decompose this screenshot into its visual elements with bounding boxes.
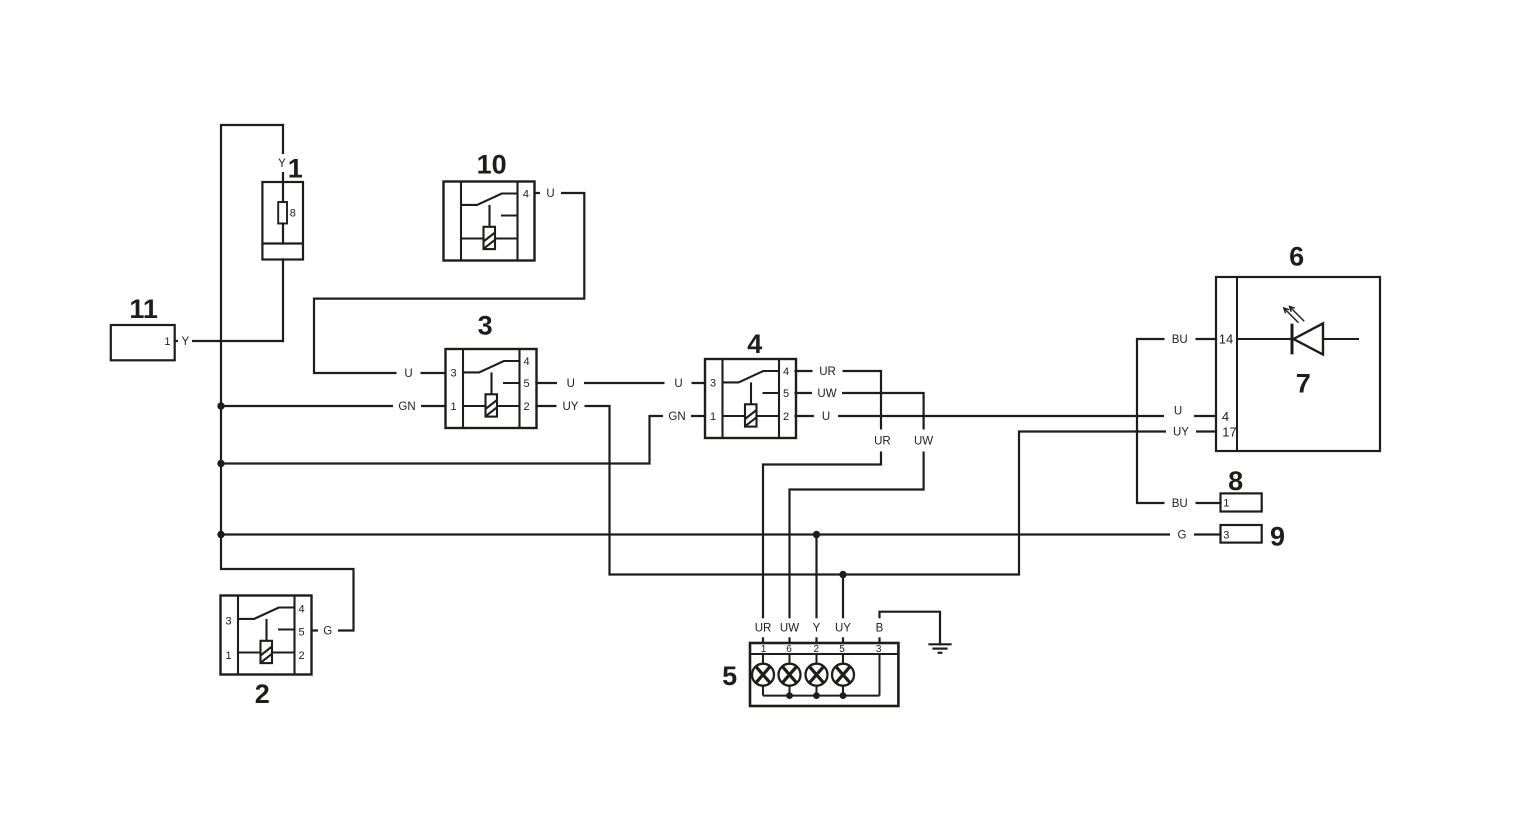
svg-text:Y: Y [278, 158, 286, 170]
svg-text:14: 14 [1219, 332, 1233, 347]
svg-text:GN: GN [668, 411, 685, 423]
svg-text:UW: UW [914, 435, 933, 447]
svg-text:1: 1 [710, 411, 716, 423]
svg-text:2: 2 [523, 401, 529, 413]
svg-text:BU: BU [1172, 498, 1188, 510]
svg-text:UW: UW [817, 388, 836, 400]
svg-text:1: 1 [1223, 498, 1229, 510]
svg-text:3: 3 [450, 367, 456, 379]
svg-text:5: 5 [839, 644, 845, 655]
svg-text:4: 4 [298, 603, 304, 615]
svg-text:UY: UY [835, 622, 851, 634]
svg-text:2: 2 [814, 644, 820, 655]
svg-text:BU: BU [1172, 334, 1188, 346]
svg-text:1: 1 [288, 154, 303, 184]
svg-text:2: 2 [298, 650, 304, 662]
svg-text:11: 11 [129, 294, 158, 324]
svg-text:U: U [674, 378, 682, 390]
svg-text:4: 4 [523, 356, 529, 368]
svg-text:Y: Y [813, 622, 821, 634]
svg-text:9: 9 [1270, 522, 1285, 552]
svg-text:UR: UR [755, 622, 772, 634]
svg-text:1: 1 [450, 401, 456, 413]
svg-text:UY: UY [1173, 427, 1189, 439]
svg-text:U: U [1174, 405, 1182, 417]
svg-text:4: 4 [783, 366, 789, 378]
svg-text:4: 4 [523, 188, 529, 200]
svg-text:5: 5 [783, 388, 789, 400]
svg-text:G: G [1178, 529, 1187, 541]
svg-text:10: 10 [477, 149, 507, 179]
svg-text:B: B [876, 622, 884, 634]
svg-text:5: 5 [523, 378, 529, 390]
svg-text:Y: Y [181, 336, 189, 348]
svg-text:UR: UR [874, 435, 891, 447]
svg-text:1: 1 [225, 650, 231, 662]
svg-text:6: 6 [1289, 242, 1304, 272]
svg-text:4: 4 [747, 329, 762, 359]
svg-text:U: U [822, 411, 830, 423]
svg-text:UR: UR [819, 366, 836, 378]
svg-text:GN: GN [398, 401, 415, 413]
svg-text:3: 3 [478, 311, 493, 341]
svg-text:5: 5 [298, 626, 304, 638]
svg-text:17: 17 [1222, 424, 1236, 439]
svg-text:3: 3 [876, 644, 882, 655]
svg-text:2: 2 [783, 411, 789, 423]
svg-text:G: G [323, 625, 332, 637]
svg-text:3: 3 [1223, 530, 1229, 542]
svg-text:U: U [567, 378, 575, 390]
svg-text:3: 3 [710, 377, 716, 389]
svg-text:1: 1 [164, 336, 170, 348]
svg-text:3: 3 [225, 615, 231, 627]
svg-text:U: U [546, 188, 554, 200]
svg-text:2: 2 [255, 679, 270, 709]
svg-text:1: 1 [761, 644, 767, 655]
svg-text:U: U [404, 368, 412, 380]
svg-text:4: 4 [1222, 409, 1229, 424]
svg-text:8: 8 [290, 207, 296, 219]
svg-text:5: 5 [722, 661, 737, 691]
svg-text:8: 8 [1228, 466, 1243, 496]
svg-text:7: 7 [1296, 369, 1311, 399]
svg-text:UW: UW [780, 622, 799, 634]
svg-text:UY: UY [563, 401, 579, 413]
svg-text:6: 6 [786, 644, 792, 655]
